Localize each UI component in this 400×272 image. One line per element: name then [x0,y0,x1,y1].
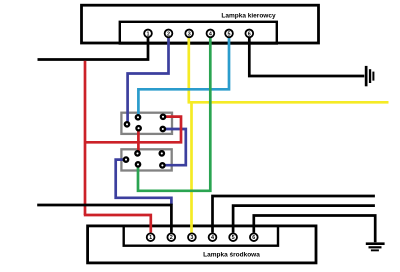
svg-text:2: 2 [167,31,170,37]
svg-text:2: 2 [170,235,173,241]
pin 1 bottom [147,233,155,241]
svg-text:5: 5 [228,31,231,37]
S1 terminal D (top right) [161,115,165,119]
S1 terminal B (top left) [136,115,140,119]
connector block bottom [124,226,278,246]
pin 5 bottom [229,233,237,241]
wire red branch to S1 right pin [85,117,181,143]
pin 6 top [245,30,253,38]
ground bottom-right bar2 [369,246,382,248]
S2 terminal C (bottom left) [136,162,140,166]
ground bottom-right bar3 [371,249,379,251]
connector block top [120,22,277,44]
wire black pin1-top to left bus [38,38,149,60]
switch S1 body [121,113,172,134]
svg-text:4: 4 [209,31,212,37]
pin 4 bottom [209,233,217,241]
switch S2 body [121,149,171,170]
svg-text:6: 6 [252,235,255,241]
wire red main vertical [84,61,87,215]
wire black bottom bus to pin2-bottom [37,205,171,233]
wire yellow pin3-top down [187,38,190,103]
pin 2 bottom [167,233,175,241]
wire black pin6-bottom to ground [254,216,375,243]
ground top-right bar3 [372,72,374,81]
ground top-right bar2 [369,69,371,83]
svg-text:3: 3 [188,31,191,37]
ground top-right bar1 [365,66,368,86]
wire red S1 to S2 vertical [137,128,140,153]
S2 terminal A (left mid) [124,157,128,161]
pin 5 top [225,30,233,38]
wire black pin4-bottom right [213,196,375,233]
wire blue S1 to S2 loop [162,129,185,165]
lamp box top (Lampka kierowcy) [82,5,319,43]
svg-text:3: 3 [190,235,193,241]
svg-text:5: 5 [232,235,235,241]
svg-text:1: 1 [147,31,150,37]
wire blue S2 to bottom bus [116,160,172,205]
pin 3 top [185,30,193,38]
S2 terminal T (top right) [160,151,164,155]
wire yellow branch right [188,101,389,104]
S2 terminal E (bottom right) [160,163,164,167]
svg-text:6: 6 [248,31,251,37]
S1 terminal C (bottom left) [136,126,140,130]
wire yellow down to pin3-bottom [190,102,193,232]
pin 2 top [165,30,173,38]
svg-text:1: 1 [149,235,152,241]
wire cyan pin5-top to S1 [138,38,229,118]
svg-text:4: 4 [211,235,214,241]
S1 terminal A (left mid) [125,122,129,126]
wire red bottom to pin1-bottom [84,215,151,233]
S1 terminal E (bottom right) [161,127,165,131]
wire blue pin2-top to S1 [128,38,169,125]
lamp box bottom (Lampka środkowa) [88,226,316,263]
ground bottom-right bar1 [366,242,385,245]
pin 1 top [144,30,152,38]
S2 terminal B (top left) [135,151,139,155]
pin 4 top [207,30,215,38]
svg-text:Lampka środkowa: Lampka środkowa [203,251,260,258]
svg-text:Lampka kierowcy: Lampka kierowcy [221,12,276,19]
wire green pin4-top to S2 [138,38,210,191]
pin 3 bottom [188,233,196,241]
pin 6 bottom [250,233,258,241]
wire black pin5-bottom right [233,206,375,233]
wire black pin6-top to ground [249,38,364,77]
